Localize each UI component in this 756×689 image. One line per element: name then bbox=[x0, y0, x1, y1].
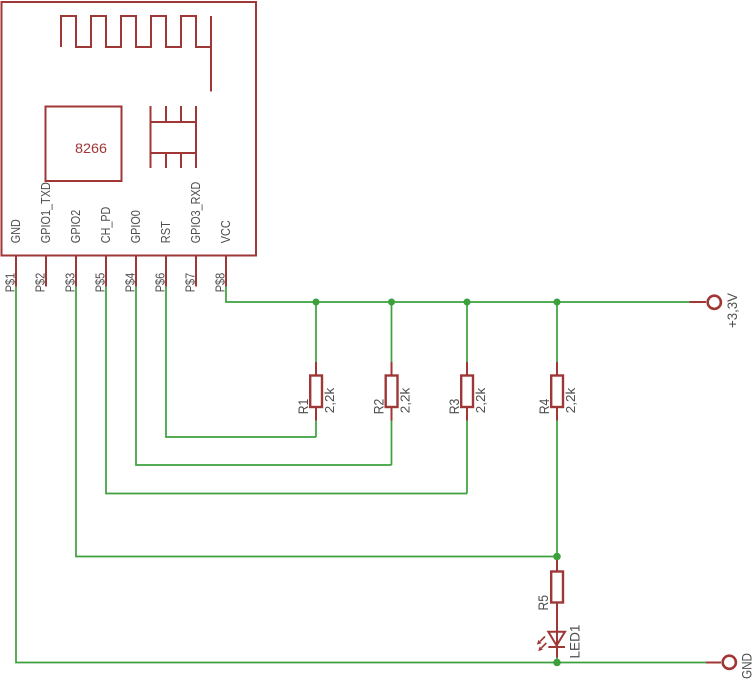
svg-text:+3,3V: +3,3V bbox=[724, 292, 740, 328]
svg-text:P$7: P$7 bbox=[182, 273, 197, 293]
svg-text:P$6: P$6 bbox=[152, 273, 167, 293]
svg-text:8266: 8266 bbox=[75, 140, 107, 156]
svg-text:CH_PD: CH_PD bbox=[98, 207, 113, 243]
svg-text:LED1: LED1 bbox=[567, 624, 583, 658]
svg-text:R2: R2 bbox=[370, 399, 386, 415]
svg-text:GPIO0: GPIO0 bbox=[128, 210, 143, 243]
svg-text:2,2k: 2,2k bbox=[473, 387, 488, 413]
svg-text:2,2k: 2,2k bbox=[563, 387, 578, 413]
svg-text:P$8: P$8 bbox=[212, 273, 227, 293]
svg-text:P$2: P$2 bbox=[32, 273, 47, 293]
svg-text:2,2k: 2,2k bbox=[322, 387, 337, 413]
svg-text:R1: R1 bbox=[295, 399, 311, 415]
svg-text:GND: GND bbox=[738, 653, 754, 679]
svg-text:GPIO3_RXD: GPIO3_RXD bbox=[188, 182, 203, 244]
svg-text:P$5: P$5 bbox=[92, 273, 107, 293]
svg-text:R3: R3 bbox=[446, 399, 462, 415]
svg-text:R4: R4 bbox=[536, 399, 552, 415]
svg-text:VCC: VCC bbox=[218, 220, 233, 243]
svg-text:P$1: P$1 bbox=[2, 273, 17, 293]
svg-text:GND: GND bbox=[8, 219, 23, 243]
svg-text:R5: R5 bbox=[535, 595, 551, 611]
svg-text:P$4: P$4 bbox=[122, 273, 137, 293]
svg-text:2,2k: 2,2k bbox=[398, 387, 413, 413]
svg-text:P$3: P$3 bbox=[62, 273, 77, 293]
svg-text:RST: RST bbox=[158, 221, 173, 243]
svg-text:GPIO2: GPIO2 bbox=[68, 210, 83, 244]
svg-text:GPIO1_TXD: GPIO1_TXD bbox=[38, 182, 53, 243]
